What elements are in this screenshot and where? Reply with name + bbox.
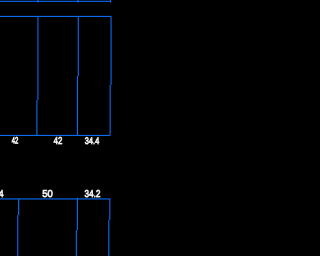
svg-text:42: 42 — [12, 136, 19, 146]
svg-text:34.4: 34.4 — [85, 136, 100, 147]
svg-text:34.2: 34.2 — [85, 189, 101, 200]
svg-text:4: 4 — [0, 189, 4, 200]
svg-text:42: 42 — [54, 136, 63, 147]
svg-text:50: 50 — [42, 189, 53, 200]
